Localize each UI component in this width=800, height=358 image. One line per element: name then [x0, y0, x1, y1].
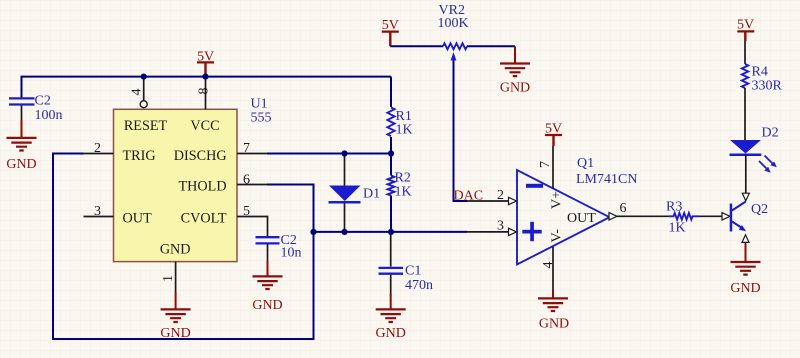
svg-text:RESET: RESET: [124, 118, 168, 134]
U1 pin 2 TRIG: [84, 141, 156, 164]
wire VR2 wiper down to DAC / op-amp pin2: [454, 60, 468, 201]
svg-text:DISCHG: DISCHG: [174, 148, 227, 164]
capacitor C1 470n: [379, 233, 434, 295]
svg-text:330R: 330R: [752, 79, 783, 94]
ground under C1: [376, 294, 406, 341]
svg-text:1: 1: [161, 275, 176, 282]
U1 pin 7 DISCHG: [174, 141, 267, 164]
svg-text:OUT: OUT: [123, 210, 152, 226]
svg-text:GND: GND: [500, 81, 530, 96]
svg-text:7: 7: [243, 141, 250, 156]
svg-text:100n: 100n: [35, 108, 63, 123]
svg-text:100K: 100K: [438, 16, 469, 31]
svg-text:U1: U1: [251, 97, 268, 112]
svg-text:470n: 470n: [405, 278, 433, 293]
U1 pin 1 GND: [160, 241, 191, 293]
ground for VR2: [500, 46, 530, 95]
wire DISCHG row to R1/R2: [267, 153, 391, 155]
junction node pin8/5V rail: [202, 74, 208, 80]
svg-text:C1: C1: [405, 264, 421, 279]
svg-text:2: 2: [497, 188, 504, 203]
svg-text:5V: 5V: [737, 17, 754, 32]
svg-text:GND: GND: [252, 298, 282, 313]
svg-text:R3: R3: [666, 199, 682, 214]
ground under C2 10n: [252, 261, 282, 313]
wire R1 to R2 vertical: [390, 77, 392, 233]
svg-text:D1: D1: [363, 186, 380, 201]
svg-text:7: 7: [538, 161, 553, 168]
wire inverting input row to op-amp pin3: [314, 231, 468, 233]
svg-text:D2: D2: [762, 126, 779, 141]
svg-text:Q2: Q2: [751, 202, 768, 217]
svg-text:GND: GND: [539, 317, 569, 332]
resistor R3 1K: [666, 199, 722, 235]
Q1 pin 4 V- supply: [541, 247, 556, 291]
IC U1 555 timer body: [114, 109, 238, 261]
svg-text:GND: GND: [160, 241, 191, 257]
wire top rail from C2 to R1: [22, 77, 392, 98]
junction node R1/R2 on DISCHG row: [388, 150, 394, 156]
Q1 pin 3 non-inverting input: [467, 219, 517, 236]
svg-text:CVOLT: CVOLT: [181, 210, 227, 226]
svg-text:6: 6: [243, 173, 250, 188]
op-amp Q1 LM741CN: [517, 156, 637, 265]
diode D1: [329, 154, 381, 232]
U1 pin 8 VCC: [190, 77, 219, 135]
svg-text:555: 555: [251, 110, 272, 125]
power 5V above U1 pin 8: [197, 49, 214, 76]
svg-text:THOLD: THOLD: [179, 179, 227, 195]
ground under C2 100n: [6, 120, 36, 172]
power 5V for R4: [737, 17, 754, 41]
power 5V for Q1: [545, 122, 562, 146]
svg-text:GND: GND: [6, 157, 36, 172]
junction node D1 top on DISCHG row: [341, 150, 347, 156]
svg-text:LM741CN: LM741CN: [576, 172, 637, 187]
potentiometer VR2 100K: [390, 3, 515, 61]
svg-text:1K: 1K: [395, 184, 412, 199]
svg-text:4: 4: [541, 262, 556, 269]
Q1 pin 6 output: [609, 201, 669, 220]
junction node loop riser on pin3 row: [310, 229, 316, 235]
capacitor C2 100n: [9, 94, 63, 123]
LED D2: [730, 126, 779, 173]
svg-text:TRIG: TRIG: [123, 148, 156, 164]
svg-text:R2: R2: [395, 170, 411, 185]
resistor R1 1K: [387, 108, 412, 138]
wire TRIG loop (pin2 left, down, bottom, up to THOLD row): [53, 154, 314, 340]
ground under U1 pin 1: [160, 292, 190, 341]
junction node D1 bottom on pin3 row: [341, 229, 347, 235]
junction node pin4/rail: [141, 74, 147, 80]
svg-text:Q1: Q1: [577, 156, 594, 171]
svg-text:V+: V+: [550, 191, 565, 209]
svg-text:3: 3: [497, 219, 504, 234]
svg-text:VCC: VCC: [190, 118, 219, 134]
svg-text:6: 6: [620, 201, 627, 216]
U1 pin 5 CVOLT: [181, 204, 268, 237]
svg-text:3: 3: [94, 204, 101, 219]
U1 pin 3 OUT: [84, 204, 152, 226]
svg-text:V-: V-: [550, 229, 565, 243]
resistor R2 1K: [388, 170, 412, 199]
U1 pin 4 RESET: [124, 77, 168, 135]
U1 pin 6 THOLD: [179, 173, 267, 195]
svg-text:10n: 10n: [281, 246, 302, 261]
svg-text:OUT: OUT: [567, 211, 596, 226]
power 5V for VR2: [382, 18, 399, 47]
svg-text:4: 4: [130, 89, 145, 96]
svg-text:1K: 1K: [669, 221, 686, 236]
junction node R2/C1 on pin3 row: [388, 229, 394, 235]
svg-text:2: 2: [94, 141, 101, 156]
Q1 pin 7 V+ supply: [538, 146, 553, 189]
ground for Q2 emitter: [730, 244, 760, 296]
transistor Q2: [722, 155, 768, 245]
svg-text:5: 5: [243, 204, 250, 219]
svg-text:8: 8: [197, 88, 212, 95]
Q1 pin 2 inverting input: [467, 188, 517, 205]
ground for Q1 pin 4: [538, 290, 569, 332]
svg-text:GND: GND: [160, 326, 190, 341]
capacitor C2 10n on CVOLT: [256, 233, 302, 262]
resistor R4 330R: [742, 41, 783, 140]
svg-text:GND: GND: [730, 281, 760, 296]
svg-text:R4: R4: [752, 65, 768, 80]
svg-text:GND: GND: [376, 326, 406, 341]
svg-text:1K: 1K: [396, 123, 413, 138]
svg-text:C2: C2: [35, 94, 51, 109]
